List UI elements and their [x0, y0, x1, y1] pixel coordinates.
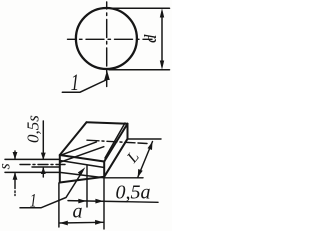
wire dimension line d [161, 12, 163, 66]
wire circle conductor outline [76, 8, 137, 69]
svg-text:d: d [141, 34, 160, 43]
wire dimension line half-a [68, 201, 158, 203]
conductor plate bottom edge on front face [60, 172, 104, 177]
strip front-top edge [60, 155, 104, 162]
svg-text:a: a [73, 201, 83, 223]
wire extension line a right [103, 179, 105, 230]
wire extension line L front [104, 177, 143, 179]
svg-text:0,5a: 0,5a [116, 182, 151, 204]
wire extension line s top [5, 158, 59, 160]
node horizontal centerline [68, 38, 153, 40]
leader arrow to strip bottom figure [20, 175, 81, 208]
strip right receding top edge [104, 124, 127, 162]
arrowhead s top [13, 152, 18, 159]
strip back top edge [87, 122, 128, 123]
strip front-bottom edge [60, 177, 104, 183]
arrowhead half-s bottom [41, 167, 46, 174]
arrowhead a right [95, 220, 103, 225]
wire extension line half-a left [86, 165, 88, 207]
wire dimension line half-s [42, 121, 44, 177]
wire extension line half-s mid [32, 166, 59, 168]
arrowhead half-s top [41, 153, 46, 160]
svg-text:1: 1 [30, 189, 37, 211]
node axis dash-dot left [20, 164, 65, 166]
inner top-face line right [105, 123, 125, 158]
arrowhead leader bottom figure [78, 167, 86, 176]
wire extension line s bottom [5, 171, 59, 173]
strip front-right vertical edge [103, 162, 105, 177]
inner top-face line second [60, 147, 104, 163]
strip left receding edge [60, 122, 87, 155]
arrowhead s bottom [13, 172, 18, 179]
leader arrow to circle wall [62, 80, 107, 93]
wire top extension line for d [107, 7, 170, 9]
arrowhead d top [160, 8, 164, 17]
conductor plate top edge on front face [60, 161, 104, 168]
svg-text:s: s [0, 163, 14, 169]
wire extension line L back [128, 138, 162, 140]
wire bottom extension line for d [109, 69, 170, 71]
wire dimension line L [138, 142, 153, 178]
node axis dash-dot top face [87, 140, 147, 143]
arrowhead L top [148, 142, 153, 151]
arrowhead half-a onto left extension [78, 199, 86, 204]
node vertical centerline [106, 2, 108, 87]
arrowhead leader top figure [104, 70, 110, 80]
arrowhead half-a onto right extension [95, 199, 103, 204]
wire dimension line a [60, 221, 104, 224]
strip front-left vertical edge [59, 155, 61, 183]
svg-text:L: L [123, 148, 142, 167]
strip back-right vertical edge [127, 124, 129, 139]
strip right receding bottom edge [104, 139, 127, 177]
arrowhead L bottom [138, 169, 143, 178]
arrowhead d bottom [160, 61, 164, 70]
arrowhead a left [60, 221, 68, 226]
inner top-face line left [60, 142, 97, 156]
svg-text:0,5s: 0,5s [24, 115, 43, 143]
wire extension line a left [58, 183, 60, 227]
svg-text:1: 1 [71, 70, 79, 95]
wire dimension line s [14, 151, 16, 196]
